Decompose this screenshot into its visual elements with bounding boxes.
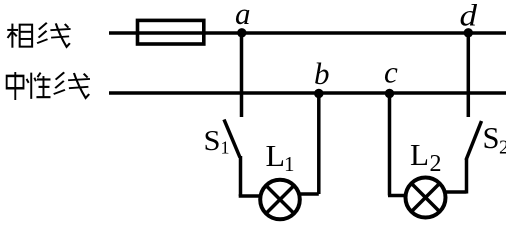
- wire: node c down: [388, 93, 392, 196]
- wire: live line: [109, 31, 506, 35]
- svg-text:d: d: [460, 0, 478, 33]
- wire: lamp L1 right to node b riser: [299, 192, 319, 196]
- wire: S1 pivot down: [239, 156, 243, 196]
- net label: neutral wire 线 (hand-drawn glyph): [54, 72, 90, 98]
- wire: node d down to S2: [467, 33, 471, 117]
- node b (junction dot): [314, 89, 323, 98]
- node c (junction dot): [385, 89, 394, 98]
- svg-text:S: S: [483, 120, 500, 155]
- svg-text:L: L: [410, 137, 429, 172]
- svg-text:1: 1: [284, 152, 295, 176]
- svg-text:S: S: [204, 125, 221, 157]
- lamp L2 (circle with X): [406, 178, 446, 218]
- svg-text:L: L: [266, 138, 286, 173]
- net label: live wire 线 (hand-drawn glyph): [37, 23, 70, 47]
- wire: bottom horizontal to lamp L1 left: [239, 194, 261, 198]
- svg-text:2: 2: [430, 151, 442, 177]
- node a (junction dot): [237, 28, 246, 37]
- net label: neutral wire 中 (hand-drawn glyph): [7, 72, 24, 100]
- net label: live wire 相 (hand-drawn glyph): [7, 24, 32, 48]
- wire: bottom horizontal to lamp L2 left: [388, 194, 406, 198]
- svg-text:a: a: [235, 0, 251, 31]
- wire: lamp L2 right: [445, 190, 467, 194]
- wire: neutral line: [109, 91, 506, 95]
- wire: riser up to node b: [317, 93, 321, 194]
- wire: node a down to switch S1: [240, 33, 244, 117]
- svg-text:1: 1: [221, 138, 230, 158]
- svg-text:c: c: [384, 55, 398, 90]
- fuse F1: [138, 20, 204, 44]
- lamp L1 (circle with X): [260, 180, 300, 220]
- net label: neutral wire 性 (hand-drawn glyph): [27, 73, 51, 99]
- wire: up to S2 pivot: [465, 159, 469, 194]
- switch S2 blade (open): [466, 121, 482, 160]
- switch S1 blade (open): [224, 120, 240, 158]
- node d (junction dot): [464, 28, 473, 37]
- svg-text:b: b: [314, 56, 330, 91]
- svg-text:2: 2: [499, 137, 506, 159]
